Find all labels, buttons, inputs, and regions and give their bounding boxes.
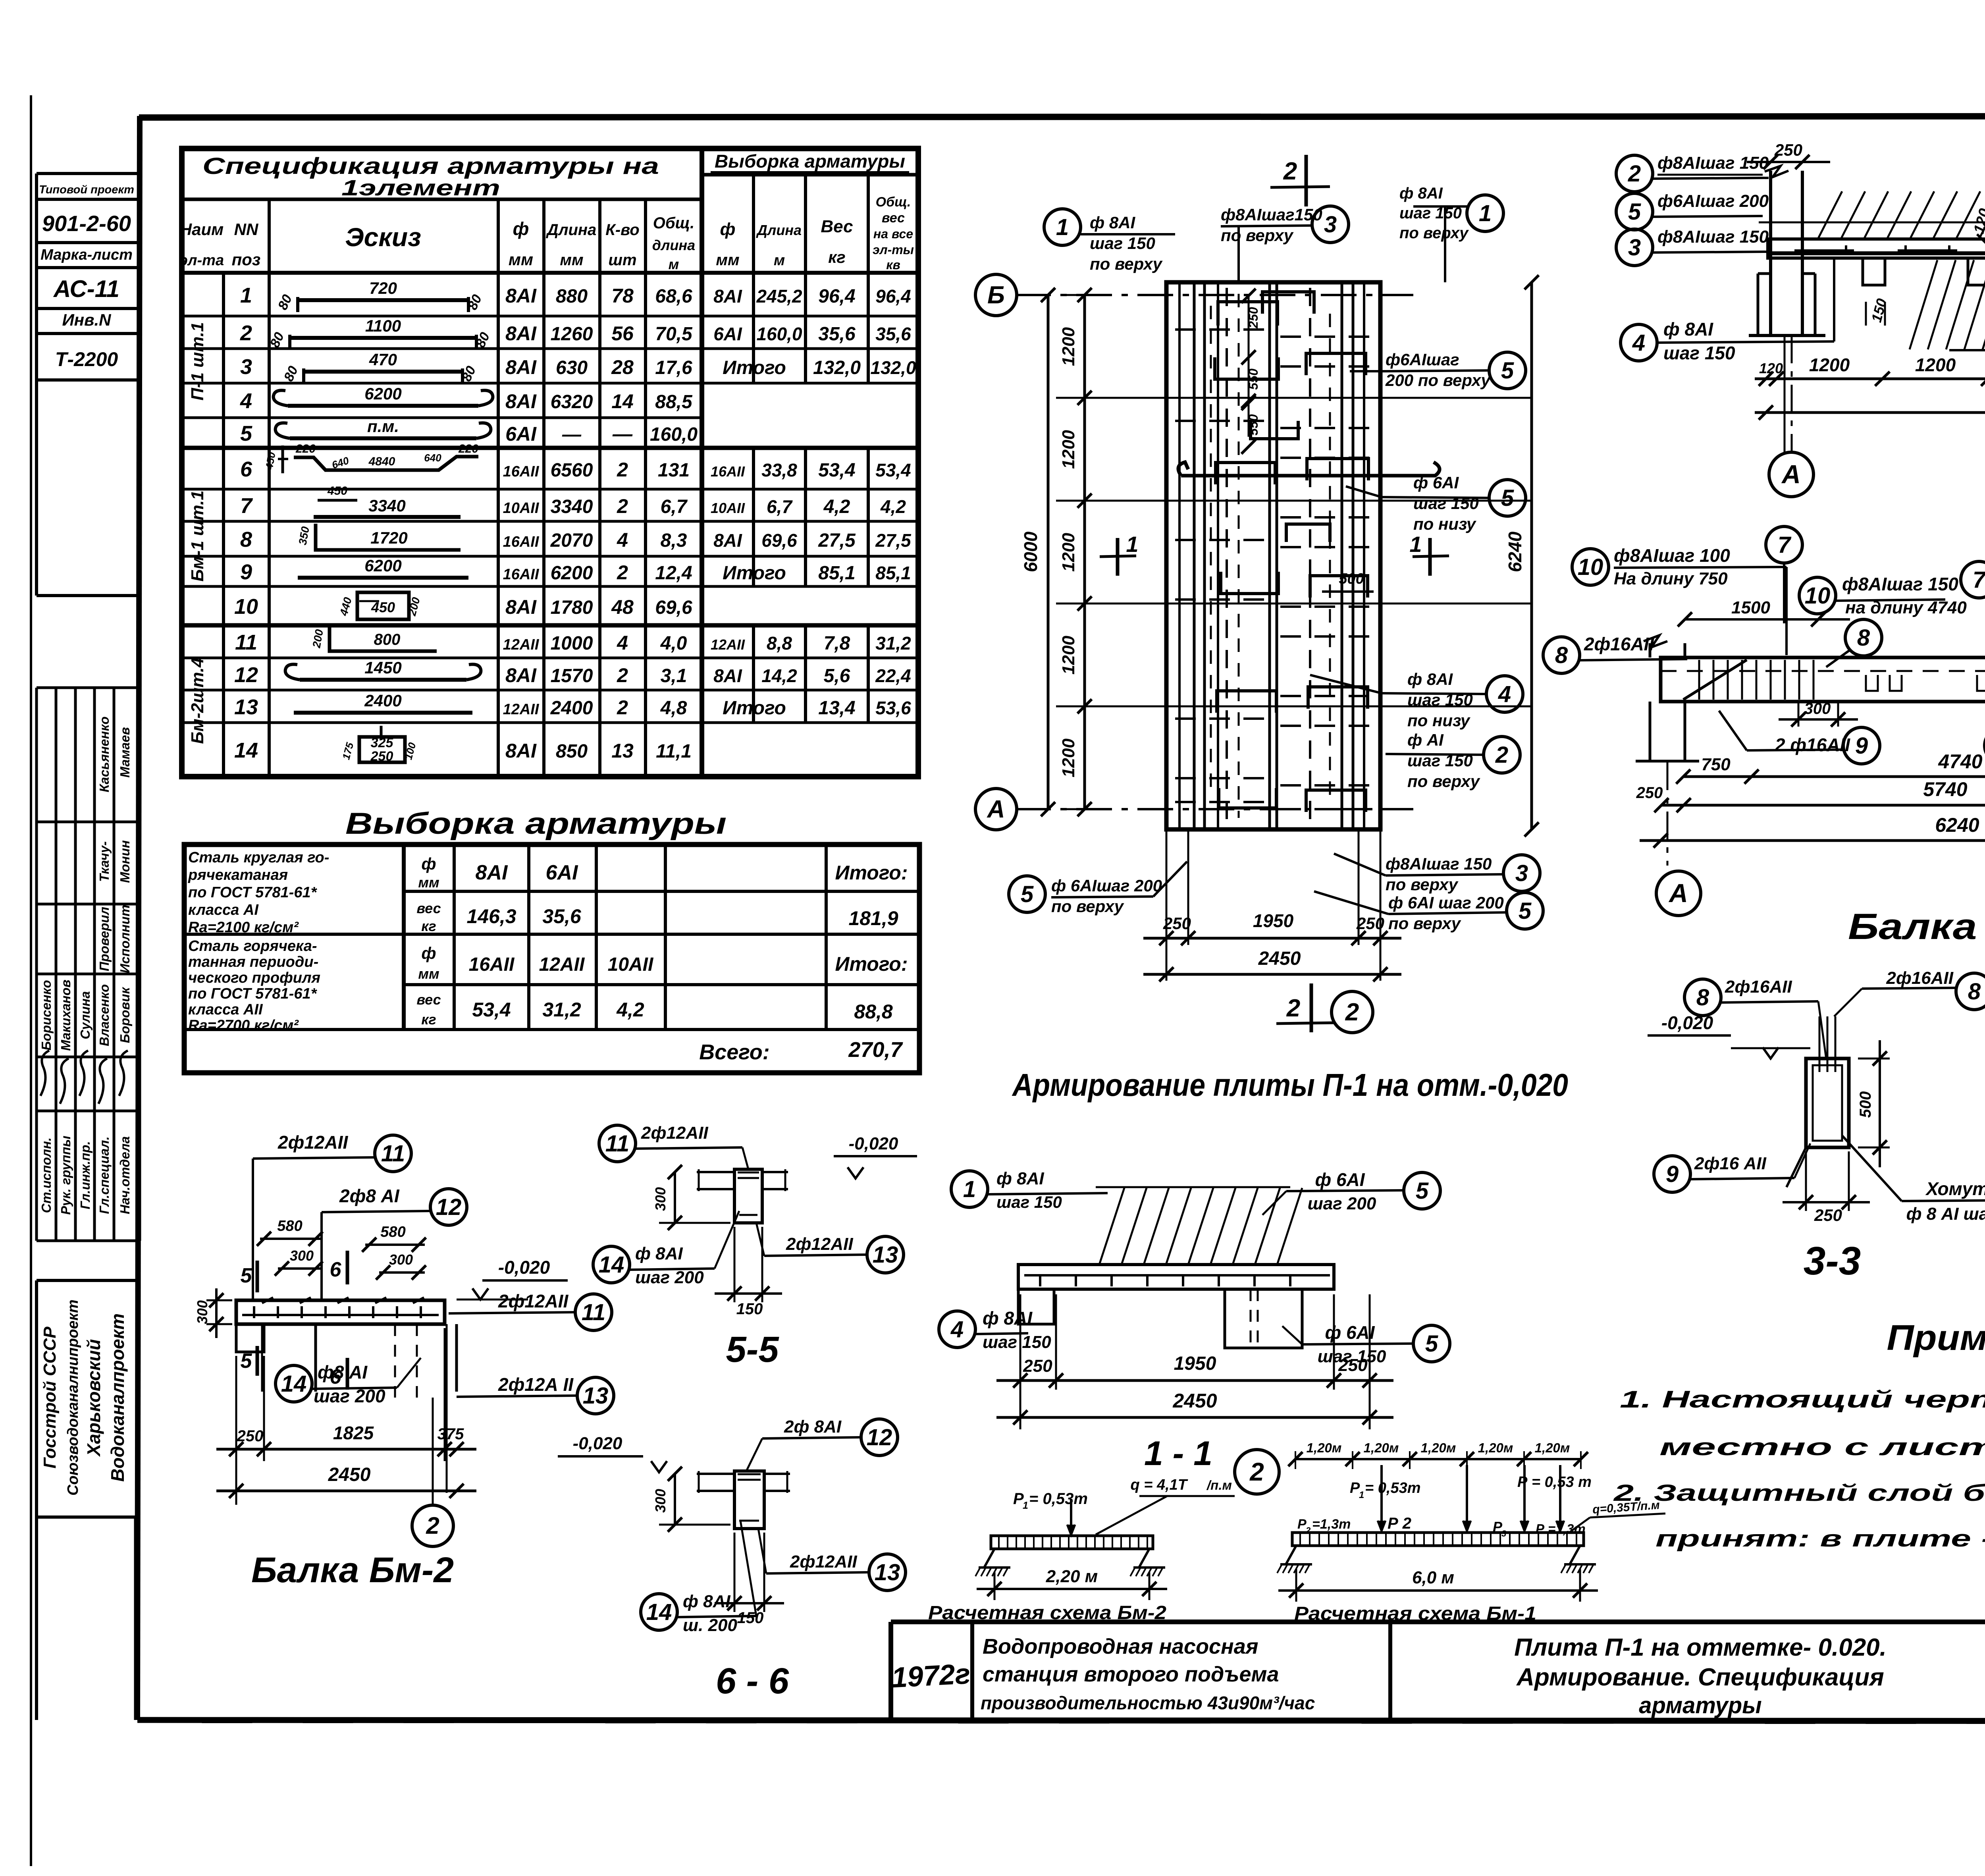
section 2-2 dimensions xyxy=(1755,335,1985,453)
svg-text:53,6: 53,6 xyxy=(875,698,911,718)
svg-text:по верху: по верху xyxy=(1399,224,1469,242)
svg-text:1,20м: 1,20м xyxy=(1478,1440,1513,1455)
svg-text:10: 10 xyxy=(234,595,258,619)
svg-text:1100: 1100 xyxy=(365,316,401,335)
svg-text:120: 120 xyxy=(1971,207,1985,235)
svg-text:ф: ф xyxy=(513,218,529,239)
svg-text:69,6: 69,6 xyxy=(761,530,797,551)
svg-text:630: 630 xyxy=(556,357,588,378)
svg-text:96,4: 96,4 xyxy=(818,286,855,307)
svg-text:7: 7 xyxy=(240,494,253,518)
svg-text:11: 11 xyxy=(605,1131,629,1157)
svg-text:550: 550 xyxy=(1246,368,1260,390)
svg-text:Выборка арматуры: Выборка арматуры xyxy=(715,151,905,172)
beam Бм-2 callout 14 xyxy=(276,1358,421,1406)
svg-text:ческого профиля: ческого профиля xyxy=(188,970,320,986)
svg-text:13,4: 13,4 xyxy=(818,698,855,719)
svg-text:м: м xyxy=(669,256,679,272)
section 5-5 callout 13 xyxy=(756,1223,904,1273)
beam Бм-2 bottom dims xyxy=(216,1328,476,1505)
svg-text:1: 1 xyxy=(1359,1490,1364,1500)
beam Бм-2 section mark 6 low xyxy=(330,1358,347,1390)
plan callout 5 bottom-right2 xyxy=(1314,891,1543,933)
svg-text:Исполнит: Исполнит xyxy=(118,905,132,973)
svg-text:поз: поз xyxy=(232,250,261,269)
section 3-3 callout 8 left xyxy=(1684,977,1826,1059)
beam Бм-2 callout 13 right xyxy=(457,1374,614,1414)
svg-text:1,20м: 1,20м xyxy=(1307,1440,1342,1455)
svg-text:производительностью 43и90м³/ча: производительностью 43и90м³/час xyxy=(981,1693,1315,1713)
svg-text:88,8: 88,8 xyxy=(854,1001,893,1023)
svg-text:4: 4 xyxy=(1632,330,1645,356)
section 3-3 callout 8 right xyxy=(1834,968,1985,1016)
svg-text:53,4: 53,4 xyxy=(472,999,511,1021)
section 3-3 body xyxy=(1786,1016,1849,1187)
svg-text:7: 7 xyxy=(1778,532,1792,558)
svg-text:Р: Р xyxy=(1297,1517,1307,1532)
beam Бм-2 level mark xyxy=(457,1257,568,1300)
svg-text:8АI: 8АI xyxy=(713,286,742,307)
svg-text:ф 8АI: ф 8АI xyxy=(683,1592,730,1611)
svg-text:31,2: 31,2 xyxy=(875,633,911,654)
svg-text:16АII: 16АII xyxy=(503,566,540,583)
svg-text:Примечания:: Примечания: xyxy=(1887,1318,1985,1358)
svg-text:кг: кг xyxy=(828,248,846,266)
svg-text:Водопроводная насосная: Водопроводная насосная xyxy=(983,1635,1258,1658)
svg-text:3-3: 3-3 xyxy=(1804,1239,1861,1283)
svg-text:Сталь горячека-: Сталь горячека- xyxy=(188,938,317,954)
beam Бм-1 callout 7 right xyxy=(1961,558,1985,598)
svg-text:12АII: 12АII xyxy=(711,636,745,653)
svg-text:А: А xyxy=(987,796,1005,823)
svg-text:14: 14 xyxy=(234,738,258,762)
svg-text:1200: 1200 xyxy=(1059,636,1078,675)
svg-text:Типовой проект: Типовой проект xyxy=(39,183,134,196)
svg-text:4: 4 xyxy=(617,529,628,551)
svg-text:12: 12 xyxy=(234,663,258,687)
svg-text:ф 6АI шаг 200: ф 6АI шаг 200 xyxy=(1388,893,1504,912)
beam Бм-1 callout 7 top xyxy=(1766,526,1802,623)
section 1-1 callout 4 xyxy=(939,1308,1051,1352)
organization stamp xyxy=(37,1280,140,1720)
beam Бм-1 dim 1500 left xyxy=(1678,598,1850,627)
svg-text:8АI: 8АI xyxy=(505,596,537,618)
svg-text:ф8АIшаг 150: ф8АIшаг 150 xyxy=(1386,854,1492,873)
svg-text:2ф8 АI: 2ф8 АI xyxy=(339,1186,400,1206)
svg-text:по верху: по верху xyxy=(1407,772,1481,791)
svg-text:1200: 1200 xyxy=(1059,430,1078,469)
signature stamp table xyxy=(37,688,140,1241)
svg-text:Гл.специал.: Гл.специал. xyxy=(97,1136,112,1214)
svg-text:Rа=2700 кг/см²: Rа=2700 кг/см² xyxy=(188,1017,299,1034)
svg-text:5: 5 xyxy=(1416,1178,1429,1204)
svg-text:2: 2 xyxy=(426,1512,439,1539)
svg-text:14,2: 14,2 xyxy=(761,665,797,686)
svg-text:5-5: 5-5 xyxy=(726,1329,780,1370)
plan callout 3 top xyxy=(1221,205,1349,282)
svg-text:по верху: по верху xyxy=(1090,255,1163,273)
svg-text:5,6: 5,6 xyxy=(824,665,850,686)
svg-text:вес: вес xyxy=(416,900,441,916)
svg-text:1: 1 xyxy=(1409,532,1422,557)
vyborka armatury table xyxy=(184,844,919,1073)
svg-text:А: А xyxy=(1668,878,1688,908)
svg-text:1950: 1950 xyxy=(1174,1353,1216,1374)
section 3-3 dim 500 xyxy=(1857,1040,1890,1167)
svg-text:10АII: 10АII xyxy=(503,500,540,517)
svg-text:2: 2 xyxy=(1249,1458,1264,1486)
svg-text:1,20м: 1,20м xyxy=(1364,1440,1399,1455)
svg-text:2: 2 xyxy=(617,696,628,719)
svg-text:6,0 м: 6,0 м xyxy=(1412,1568,1454,1587)
svg-text:2ф16АII: 2ф16АII xyxy=(1725,977,1792,997)
svg-text:250: 250 xyxy=(1356,914,1384,933)
beam Бм-1 dimension rows xyxy=(1636,750,1985,866)
svg-text:ф8АIшаг 100: ф8АIшаг 100 xyxy=(1614,545,1730,566)
plan callout 2 right xyxy=(1386,731,1520,791)
svg-text:Ткачу-: Ткачу- xyxy=(97,841,112,882)
svg-text:местно с листом АС-10: местно с листом АС-10 xyxy=(1659,1434,1985,1460)
svg-text:16АII: 16АII xyxy=(711,463,745,480)
svg-text:5: 5 xyxy=(1519,898,1532,924)
svg-text:12: 12 xyxy=(867,1425,892,1450)
svg-text:Т-2200: Т-2200 xyxy=(55,348,118,370)
beam Бм-2 bubble 2 xyxy=(412,1398,453,1546)
svg-text:13: 13 xyxy=(611,740,634,762)
svg-text:вес: вес xyxy=(416,991,441,1008)
svg-text:1450: 1450 xyxy=(364,658,401,677)
svg-text:27,5: 27,5 xyxy=(875,530,912,551)
svg-text:= 0,53т: = 0,53т xyxy=(1365,1480,1421,1496)
svg-text:1260: 1260 xyxy=(551,324,593,345)
svg-text:9: 9 xyxy=(1666,1161,1679,1187)
svg-text:Плита П-1 на отметке- 0.020: Плита П-1 на отметке- 0.020. xyxy=(1514,1634,1887,1661)
svg-text:по ГОСТ 5781-61*: по ГОСТ 5781-61* xyxy=(188,884,318,901)
svg-text:175: 175 xyxy=(340,741,356,761)
q label xyxy=(1096,1477,1235,1535)
section mark 2 top xyxy=(1270,155,1330,206)
svg-text:ф 6АIшаг 200: ф 6АIшаг 200 xyxy=(1051,876,1162,895)
design scheme Бм-1 xyxy=(1277,1440,1665,1624)
section 6-6 level mark xyxy=(558,1434,667,1472)
svg-text:ф 8АI: ф 8АI xyxy=(983,1308,1033,1328)
svg-text:4,0: 4,0 xyxy=(660,633,687,654)
svg-text:Р = 0,53 т: Р = 0,53 т xyxy=(1517,1474,1592,1490)
beam Бм-1 callout 8 mid xyxy=(1826,619,1882,667)
svg-text:8: 8 xyxy=(1968,979,1981,1005)
svg-text:270,7: 270,7 xyxy=(848,1038,903,1062)
svg-text:вес: вес xyxy=(882,210,905,226)
svg-text:500: 500 xyxy=(1339,571,1364,587)
svg-text:10: 10 xyxy=(1578,554,1603,580)
svg-text:Макиханов: Макиханов xyxy=(58,979,73,1051)
specification table headers xyxy=(182,148,918,777)
svg-text:q = 4,1Т: q = 4,1Т xyxy=(1130,1477,1188,1493)
svg-text:8: 8 xyxy=(1857,625,1870,651)
svg-text:181,9: 181,9 xyxy=(848,907,898,929)
svg-text:класса АI: класса АI xyxy=(188,902,259,918)
svg-text:кв: кв xyxy=(886,258,900,272)
svg-text:Мамаев: Мамаев xyxy=(118,727,132,777)
rebar sketches xyxy=(263,279,493,764)
plan grid bubble А xyxy=(975,789,1017,830)
section 5-5 dim 300 xyxy=(652,1165,730,1230)
svg-text:Эскиз: Эскиз xyxy=(345,222,421,252)
svg-text:1825: 1825 xyxy=(333,1423,374,1443)
svg-text:ф: ф xyxy=(421,854,436,873)
svg-text:200 по верху: 200 по верху xyxy=(1385,371,1491,389)
svg-text:мм: мм xyxy=(509,250,533,269)
section 2-2 grid bubble A xyxy=(1769,452,1813,497)
svg-text:Союзводоканалнипроект: Союзводоканалнипроект xyxy=(65,1300,81,1496)
svg-text:Rа=2100 кг/см²: Rа=2100 кг/см² xyxy=(188,919,299,936)
svg-text:ф 8АI: ф 8АI xyxy=(1663,319,1713,339)
svg-text:56: 56 xyxy=(611,322,634,345)
svg-text:13: 13 xyxy=(583,1383,609,1409)
svg-text:П-1 шт.1: П-1 шт.1 xyxy=(188,322,207,400)
svg-text:2. Защитный слой бетона до: 2. Защитный слой бетона до рабочей армат… xyxy=(1613,1480,1985,1506)
svg-text:АС-11: АС-11 xyxy=(53,276,119,302)
svg-text:880: 880 xyxy=(556,286,588,307)
svg-text:1: 1 xyxy=(240,283,252,307)
svg-text:ф8 АI: ф8 АI xyxy=(318,1362,368,1382)
svg-text:1: 1 xyxy=(1479,201,1492,226)
svg-text:Бм-2шт.4: Бм-2шт.4 xyxy=(188,657,207,744)
svg-text:8,8: 8,8 xyxy=(767,633,792,654)
svg-text:2: 2 xyxy=(1345,999,1359,1026)
svg-text:Борисенко: Борисенко xyxy=(39,980,54,1050)
svg-text:3: 3 xyxy=(1501,1529,1506,1539)
svg-text:1: 1 xyxy=(1126,532,1138,557)
svg-text:12АII: 12АII xyxy=(503,636,540,653)
svg-text:2400: 2400 xyxy=(550,698,593,719)
svg-text:220: 220 xyxy=(458,442,478,455)
svg-text:580: 580 xyxy=(277,1218,302,1234)
svg-text:шаг 150: шаг 150 xyxy=(1663,343,1735,363)
svg-text:10АII: 10АII xyxy=(711,500,745,516)
svg-text:53,4: 53,4 xyxy=(875,460,911,480)
svg-text:Сталь круглая го-: Сталь круглая го- xyxy=(188,849,329,866)
svg-text:Итого:: Итого: xyxy=(835,953,908,975)
note 1 xyxy=(1620,1386,1985,1460)
svg-text:5: 5 xyxy=(240,422,252,445)
svg-text:2: 2 xyxy=(240,321,252,345)
svg-text:ф 8 АI шаг 100: ф 8 АI шаг 100 xyxy=(1906,1204,1985,1224)
svg-text:ф6АIшаг 200: ф6АIшаг 200 xyxy=(1657,191,1769,211)
section 3-3 stirrup label xyxy=(1842,1136,1985,1227)
svg-text:длина: длина xyxy=(652,237,695,253)
svg-text:Боровик: Боровик xyxy=(118,986,132,1043)
svg-text:13: 13 xyxy=(234,695,258,719)
svg-text:ф: ф xyxy=(720,220,736,239)
svg-text:88,5: 88,5 xyxy=(655,391,693,413)
svg-text:по верху: по верху xyxy=(1221,226,1294,245)
svg-text:1950: 1950 xyxy=(1253,910,1294,931)
svg-text:ф 8АI: ф 8АI xyxy=(996,1169,1044,1188)
svg-text:3340: 3340 xyxy=(551,496,593,517)
svg-text:Инв.N: Инв.N xyxy=(62,310,112,329)
svg-text:250: 250 xyxy=(1163,914,1191,933)
svg-text:Всего:: Всего: xyxy=(699,1040,770,1064)
section 6-6 dim 150 xyxy=(715,1533,784,1627)
svg-text:2,20 м: 2,20 м xyxy=(1046,1567,1098,1586)
svg-text:Р =1,3т: Р =1,3т xyxy=(1536,1521,1586,1536)
svg-text:131: 131 xyxy=(658,460,690,481)
svg-text:132,0: 132,0 xyxy=(813,357,861,378)
svg-text:мм: мм xyxy=(716,251,739,269)
beam Бм-2 section mark 6 top xyxy=(330,1251,347,1284)
svg-text:1,20м: 1,20м xyxy=(1421,1440,1456,1455)
svg-text:Водоканалпроект: Водоканалпроект xyxy=(107,1313,128,1482)
svg-text:4: 4 xyxy=(240,389,252,413)
svg-text:440: 440 xyxy=(337,596,354,618)
beam Бм-2 title xyxy=(251,1550,454,1590)
section 5-5 dim 150 xyxy=(715,1227,782,1318)
svg-text:6200: 6200 xyxy=(364,384,401,403)
section bubble 2 bottom xyxy=(1332,991,1373,1033)
svg-text:2ф16АII: 2ф16АII xyxy=(1886,968,1953,988)
section 5-5 title xyxy=(726,1329,780,1370)
svg-text:6320: 6320 xyxy=(551,391,593,413)
svg-text:150: 150 xyxy=(737,1609,764,1627)
section 2-2 slab xyxy=(1759,191,1985,350)
svg-text:А: А xyxy=(1781,459,1801,489)
plan rebar symbols xyxy=(1056,282,1532,829)
svg-text:12АII: 12АII xyxy=(503,701,540,718)
svg-text:9: 9 xyxy=(240,560,252,584)
svg-text:по верху: по верху xyxy=(1051,897,1125,916)
svg-text:1720: 1720 xyxy=(370,528,407,547)
svg-text:4: 4 xyxy=(950,1317,964,1342)
svg-text:132,0: 132,0 xyxy=(870,357,916,378)
svg-text:Вес: Вес xyxy=(821,217,853,236)
svg-text:300: 300 xyxy=(389,1251,413,1268)
beam Бм-2 dim 300 left xyxy=(194,1288,232,1338)
svg-text:6 - 6: 6 - 6 xyxy=(716,1661,789,1701)
svg-text:по низу: по низу xyxy=(1413,515,1477,533)
svg-text:5: 5 xyxy=(1425,1331,1438,1357)
svg-text:Р 2: Р 2 xyxy=(1388,1515,1411,1532)
svg-text:78: 78 xyxy=(611,285,634,307)
svg-text:Итого:: Итого: xyxy=(835,862,908,884)
svg-text:ф 8АI: ф 8АI xyxy=(1407,670,1453,688)
note 2 xyxy=(1613,1480,1985,1552)
svg-text:4: 4 xyxy=(1498,681,1511,707)
svg-text:28: 28 xyxy=(611,356,634,378)
svg-text:6240: 6240 xyxy=(1505,531,1525,572)
svg-text:12АII: 12АII xyxy=(539,954,585,975)
svg-text:8АI: 8АI xyxy=(505,390,537,413)
svg-text:кг: кг xyxy=(421,1011,436,1028)
svg-text:1200: 1200 xyxy=(1059,327,1078,366)
section 1-1 callout 1 left xyxy=(951,1169,1108,1211)
svg-text:300: 300 xyxy=(194,1300,210,1324)
section 1-1 callout 5 bottom xyxy=(1282,1322,1450,1366)
svg-text:850: 850 xyxy=(556,741,588,762)
svg-text:Длина: Длина xyxy=(546,221,597,239)
svg-text:6560: 6560 xyxy=(551,460,593,481)
svg-text:—: — xyxy=(562,424,582,445)
svg-text:11: 11 xyxy=(381,1141,405,1166)
svg-text:750: 750 xyxy=(1701,755,1731,774)
left stamp column xyxy=(37,174,140,596)
svg-text:К-во: К-во xyxy=(605,221,640,239)
section 6-6 dim 300 xyxy=(652,1467,730,1532)
svg-text:16АII: 16АII xyxy=(503,534,540,550)
svg-text:250: 250 xyxy=(1814,1206,1842,1224)
svg-text:шаг 150: шаг 150 xyxy=(996,1193,1062,1211)
svg-text:ф 8АI: ф 8АI xyxy=(1399,185,1443,202)
plan axis lines xyxy=(1015,295,1413,809)
svg-text:4,2: 4,2 xyxy=(616,999,644,1021)
svg-text:Монин: Монин xyxy=(118,840,132,883)
svg-text:-0,020: -0,020 xyxy=(573,1434,622,1453)
plan callout 3 bottom-right xyxy=(1334,854,1540,894)
svg-text:11,1: 11,1 xyxy=(656,741,692,762)
svg-text:5: 5 xyxy=(241,1350,252,1373)
svg-text:2450: 2450 xyxy=(1172,1390,1217,1412)
svg-text:11: 11 xyxy=(582,1300,605,1325)
svg-text:70,5: 70,5 xyxy=(655,324,693,345)
svg-text:250: 250 xyxy=(1774,141,1802,159)
svg-text:NN: NN xyxy=(234,220,259,239)
svg-text:8: 8 xyxy=(1555,642,1568,668)
svg-text:по верху: по верху xyxy=(1388,914,1462,933)
svg-text:мм: мм xyxy=(560,251,583,269)
svg-text:300: 300 xyxy=(290,1247,314,1264)
svg-text:14: 14 xyxy=(646,1599,672,1625)
svg-text:6,7: 6,7 xyxy=(661,496,688,517)
svg-text:8АI: 8АI xyxy=(713,665,742,686)
svg-text:1200: 1200 xyxy=(1059,533,1078,572)
notes title xyxy=(1887,1318,1985,1358)
svg-text:27,5: 27,5 xyxy=(818,530,856,551)
plan callout 1 top-right xyxy=(1399,185,1503,282)
svg-text:1: 1 xyxy=(1023,1500,1028,1511)
svg-text:250: 250 xyxy=(370,749,393,764)
svg-text:шаг 150: шаг 150 xyxy=(983,1332,1051,1352)
svg-text:80: 80 xyxy=(275,292,295,312)
svg-text:1,20м: 1,20м xyxy=(1535,1440,1570,1455)
svg-text:2: 2 xyxy=(1283,158,1297,185)
section 3-3 title xyxy=(1804,1239,1861,1283)
svg-text:12,4: 12,4 xyxy=(655,563,692,584)
svg-text:ф 6АI: ф 6АI xyxy=(1413,473,1459,492)
svg-text:5: 5 xyxy=(1021,881,1034,907)
svg-text:13: 13 xyxy=(875,1560,900,1585)
plan title xyxy=(1012,1067,1568,1103)
svg-text:2: 2 xyxy=(1495,742,1508,768)
svg-text:Харьковский: Харьковский xyxy=(83,1339,104,1458)
svg-text:96,4: 96,4 xyxy=(875,286,911,307)
svg-text:200: 200 xyxy=(310,628,326,649)
svg-text:6200: 6200 xyxy=(364,556,401,575)
svg-text:3: 3 xyxy=(1628,235,1641,260)
svg-text:2: 2 xyxy=(1286,995,1300,1022)
svg-text:8: 8 xyxy=(240,528,252,551)
svg-text:350: 350 xyxy=(296,525,312,546)
svg-text:6,7: 6,7 xyxy=(767,496,793,517)
section 2-2 columns xyxy=(1747,141,1985,335)
svg-text:танная периоди-: танная периоди- xyxy=(188,954,318,970)
svg-text:Сулина: Сулина xyxy=(78,991,93,1039)
svg-text:Наим: Наим xyxy=(180,220,224,239)
svg-text:кг: кг xyxy=(421,918,436,934)
svg-text:550: 550 xyxy=(1246,414,1260,436)
svg-text:580: 580 xyxy=(380,1224,405,1240)
svg-text:16АII: 16АII xyxy=(469,954,515,975)
svg-text:500: 500 xyxy=(1857,1091,1874,1118)
